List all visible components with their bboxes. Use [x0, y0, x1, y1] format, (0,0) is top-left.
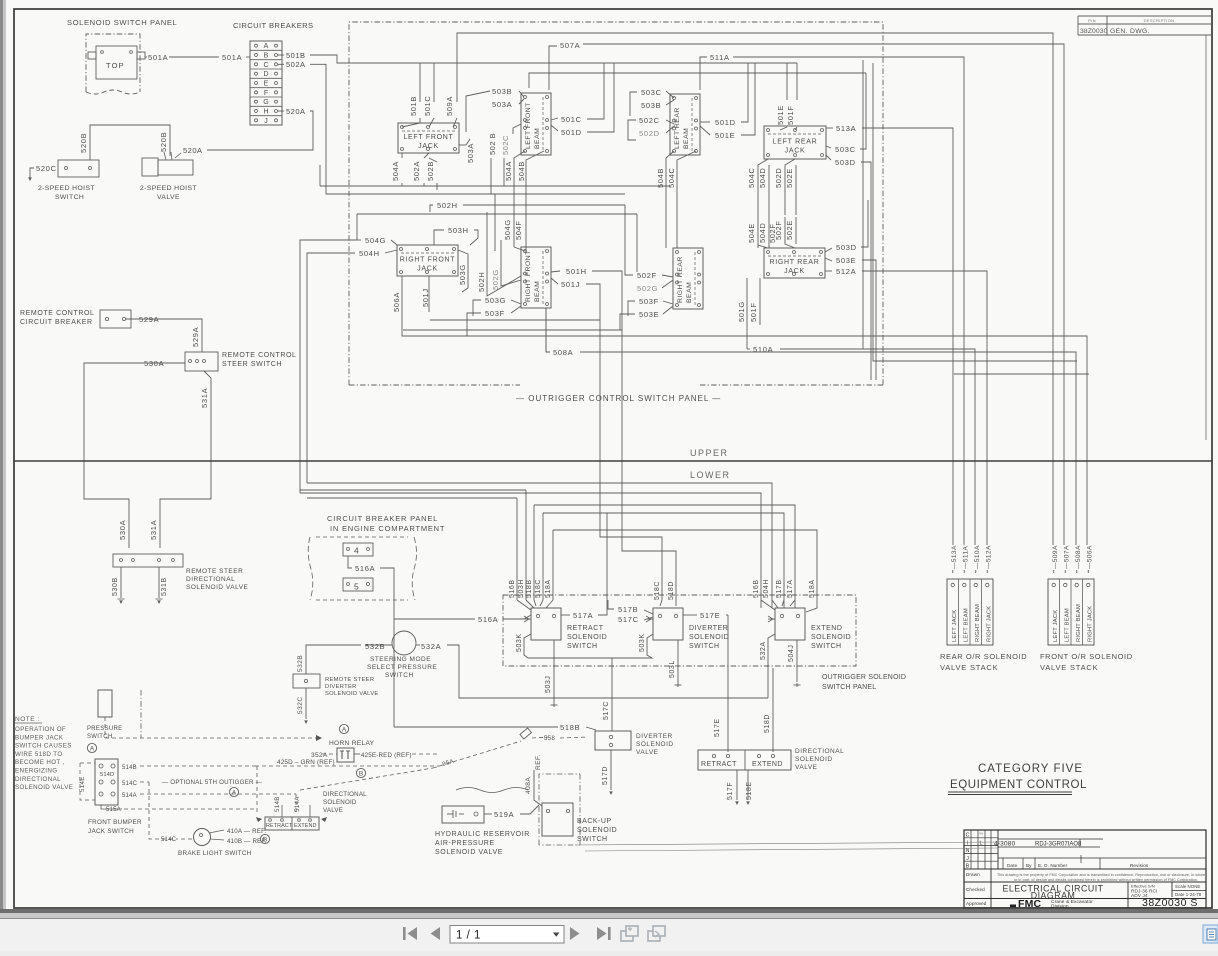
svg-text:SWITCH PANEL: SWITCH PANEL — [822, 684, 876, 691]
breaker G right terminal — [275, 100, 278, 103]
svg-text:518A: 518A — [545, 579, 552, 598]
svg-text:B: B — [264, 53, 269, 60]
breaker E left terminal — [255, 82, 258, 85]
svg-text:—508A: —508A — [1075, 545, 1082, 569]
svg-text:504A: 504A — [391, 161, 400, 181]
svg-text:502F: 502F — [768, 224, 777, 244]
svg-text:514A: 514A — [122, 793, 137, 799]
svg-text:520A: 520A — [286, 107, 306, 116]
breaker 5 — [343, 578, 373, 591]
svg-text:517C: 517C — [618, 615, 639, 624]
svg-text:517F: 517F — [727, 782, 734, 800]
svg-text:504B: 504B — [517, 161, 526, 181]
svg-text:DIRECTIONAL: DIRECTIONAL — [323, 791, 367, 798]
wire 520A from breaker H — [278, 110, 284, 112]
toolbar page number box — [450, 926, 564, 944]
wire 511A into stack — [963, 570, 965, 573]
wire 515A stub — [101, 805, 122, 809]
circled B (brake) — [260, 834, 269, 843]
wire 504J — [796, 640, 798, 682]
wire 531B — [158, 567, 160, 598]
svg-text:DIVERTER: DIVERTER — [636, 733, 673, 740]
svg-text:Approved: Approved — [966, 901, 987, 906]
hydraulic reservoir air-pressure solenoid valve — [442, 806, 484, 823]
wire 532A route — [447, 645, 768, 698]
svg-text:503G: 503G — [458, 264, 467, 285]
svg-text:N: N — [966, 848, 970, 854]
svg-text:BEAM: BEAM — [534, 281, 541, 302]
svg-text:I: I — [967, 840, 968, 846]
wire 518D drop — [772, 668, 774, 752]
svg-text:SWITCH: SWITCH — [689, 643, 720, 650]
svg-text:FRONT O/R SOLENOID: FRONT O/R SOLENOID — [1040, 652, 1133, 661]
svg-text:AIR-PRESSURE: AIR-PRESSURE — [435, 840, 495, 847]
svg-text:503C: 503C — [641, 88, 662, 97]
svg-text:SELECT PRESSURE: SELECT PRESSURE — [367, 664, 437, 671]
wire 501E up — [741, 63, 755, 135]
svg-text:532B: 532B — [297, 655, 304, 672]
svg-text:— OPTIONAL 5TH OUTIGGER —: — OPTIONAL 5TH OUTIGGER — — [162, 779, 263, 786]
svg-text:503J: 503J — [545, 676, 552, 693]
svg-text:BUMPER JACK: BUMPER JACK — [15, 734, 64, 741]
back-up solenoid switch — [539, 774, 580, 845]
svg-text:501B: 501B — [286, 51, 306, 60]
2-speed hoist switch — [58, 160, 99, 177]
svg-text:506A: 506A — [392, 292, 401, 312]
breaker A left terminal — [255, 44, 258, 47]
svg-text:SWITCH: SWITCH — [385, 672, 414, 679]
breaker J right terminal — [275, 119, 278, 122]
svg-text:—509A: —509A — [1052, 545, 1059, 569]
wire 503A link — [466, 91, 490, 132]
svg-text:503D: 503D — [835, 158, 856, 167]
svg-text:502 B: 502 B — [488, 133, 497, 155]
retract solenoid switch — [531, 608, 561, 640]
svg-text:502B: 502B — [426, 161, 435, 181]
svg-text:A: A — [232, 789, 237, 796]
svg-text:503H: 503H — [518, 579, 525, 598]
leader line revision 1 — [575, 842, 1000, 845]
svg-text:DIRECTIONAL: DIRECTIONAL — [795, 748, 844, 755]
svg-text:DIVERTER: DIVERTER — [689, 625, 728, 632]
svg-text:VALVE: VALVE — [795, 764, 818, 771]
wire 502H vertical — [487, 212, 521, 296]
svg-text:515A: 515A — [106, 807, 121, 813]
svg-text:L: L — [980, 841, 983, 847]
panel broken outline — [308, 537, 313, 600]
pressure switch — [98, 690, 112, 717]
svg-text:501H: 501H — [566, 267, 587, 276]
wire 502E vertical — [795, 165, 797, 215]
svg-text:SOLENOID: SOLENOID — [577, 827, 617, 834]
svg-text:BEAM: BEAM — [683, 128, 690, 149]
wire 517B bracket — [608, 600, 614, 609]
svg-text:501C: 501C — [423, 96, 432, 116]
svg-text:RIGHT JACK: RIGHT JACK — [986, 606, 992, 642]
svg-text:518C: 518C — [535, 579, 542, 598]
svg-text:516A: 516A — [478, 615, 498, 624]
wire 517D — [610, 750, 612, 790]
wire 501G down — [746, 278, 748, 349]
svg-text:530A: 530A — [118, 520, 127, 540]
viewer chrome below page — [0, 909, 1218, 913]
wire 504D vertical — [768, 165, 770, 248]
svg-text:A: A — [342, 726, 347, 733]
svg-text:LEFT BEAM: LEFT BEAM — [963, 608, 969, 642]
svg-text:503K: 503K — [639, 633, 646, 652]
svg-text:502A: 502A — [412, 161, 421, 181]
svg-text:38Z0030: 38Z0030 — [1080, 28, 1108, 35]
flag symbol — [520, 728, 532, 739]
wire stub — [319, 165, 321, 186]
svg-text:REF.: REF. — [535, 754, 542, 770]
wire 503B bus — [529, 73, 866, 88]
svg-text:503A: 503A — [492, 100, 512, 109]
svg-text:531B: 531B — [161, 577, 168, 596]
wire bus y374 — [954, 373, 1089, 375]
svg-text:503B: 503B — [641, 101, 661, 110]
wire stub 518B — [533, 505, 535, 600]
svg-text:532B: 532B — [365, 642, 385, 651]
wire 503K — [524, 634, 560, 658]
svg-text:512A: 512A — [836, 267, 856, 276]
wire 518E — [747, 770, 749, 800]
wire 509A into stack — [1053, 570, 1055, 573]
wire vertical x873 to front stack — [873, 63, 1077, 361]
wire bus y490 — [300, 489, 526, 491]
right rear jack switch — [764, 248, 825, 278]
svg-text:503L: 503L — [669, 660, 676, 678]
svg-text:ENERGIZING: ENERGIZING — [15, 768, 58, 775]
svg-text:Division: Division — [1051, 904, 1069, 910]
wire 531A — [160, 371, 211, 548]
svg-text:514B: 514B — [122, 765, 137, 771]
svg-text:501D: 501D — [561, 128, 582, 137]
svg-text:520C: 520C — [36, 164, 57, 173]
svg-text:RIGHT REAR: RIGHT REAR — [769, 259, 819, 266]
ground 504J — [794, 683, 801, 687]
svg-text:514C: 514C — [122, 781, 138, 787]
svg-text:DIRECTIONAL: DIRECTIONAL — [186, 576, 235, 583]
svg-text:504E: 504E — [747, 223, 756, 243]
svg-text:504D: 504D — [758, 223, 767, 243]
svg-text:RIGHT FRONT: RIGHT FRONT — [400, 257, 455, 264]
svg-text:JACK: JACK — [785, 148, 806, 155]
svg-text:38Z0030 S: 38Z0030 S — [1142, 897, 1198, 909]
svg-text:501D: 501D — [715, 118, 736, 127]
wire bus y214 — [357, 213, 637, 215]
svg-text:DESCRIPTION: DESCRIPTION — [1144, 18, 1175, 23]
left rear jack switch — [764, 126, 826, 159]
svg-text:UPPER: UPPER — [690, 448, 729, 458]
svg-text:532A: 532A — [760, 641, 767, 660]
svg-text:513A: 513A — [836, 124, 856, 133]
svg-text:502H: 502H — [477, 272, 486, 292]
wire 425D dashed — [255, 765, 440, 767]
svg-text:F: F — [264, 90, 268, 97]
svg-text:SOLENOID: SOLENOID — [811, 634, 851, 641]
wire 509A — [453, 118, 457, 127]
wire 532B to diverter valve — [306, 645, 361, 674]
svg-text:TOP: TOP — [106, 61, 125, 70]
svg-text:SOLENOID: SOLENOID — [323, 799, 357, 806]
title block — [964, 830, 1206, 908]
wire stub 518C — [542, 513, 544, 600]
wire 501D up — [741, 63, 748, 122]
svg-text:529A: 529A — [139, 315, 159, 324]
svg-text:530A: 530A — [144, 359, 164, 368]
svg-text:Revision: Revision — [1130, 863, 1149, 868]
svg-text:Date: Date — [1007, 863, 1017, 868]
svg-text:G: G — [263, 99, 268, 106]
svg-text:518B: 518B — [560, 723, 580, 732]
svg-text:501F: 501F — [786, 106, 795, 126]
revision table top right — [1078, 15, 1212, 17]
svg-text:RIGHT BEAM: RIGHT BEAM — [975, 604, 981, 642]
svg-text:504F: 504F — [514, 221, 523, 241]
svg-text:4: 4 — [354, 546, 359, 556]
svg-text:518D: 518D — [764, 714, 771, 733]
svg-text:IN ENGINE COMPARTMENT: IN ENGINE COMPARTMENT — [330, 524, 445, 533]
svg-text:SOLENOID VALVE: SOLENOID VALVE — [15, 784, 73, 791]
wire 515A dashed — [124, 808, 257, 810]
svg-text:501E: 501E — [776, 105, 785, 125]
svg-text:502C: 502C — [639, 116, 660, 125]
svg-text:VALVE STACK: VALVE STACK — [1040, 663, 1098, 672]
wire 508A into stack — [1076, 570, 1078, 573]
breaker G left terminal — [255, 100, 258, 103]
svg-text:501A: 501A — [222, 53, 242, 62]
wire 504H long — [307, 253, 355, 483]
toolbar next page button — [570, 927, 580, 940]
svg-text:5: 5 — [354, 582, 359, 592]
circled A (horn relay) — [339, 724, 348, 733]
breaker F left terminal — [255, 91, 258, 94]
svg-text:LEFT JACK: LEFT JACK — [952, 610, 958, 642]
svg-text:514D: 514D — [100, 772, 114, 778]
svg-text:502D: 502D — [639, 129, 660, 138]
wire 506A into stack — [1087, 570, 1089, 573]
wire 513A into stack — [952, 570, 954, 573]
left front beam switch — [521, 93, 551, 155]
wire 517C — [611, 658, 613, 731]
svg-text:EQUIPMENT CONTROL: EQUIPMENT CONTROL — [950, 779, 1087, 791]
svg-text:C: C — [263, 62, 268, 69]
svg-text:529A: 529A — [191, 327, 200, 347]
wire 503F bracket — [467, 313, 481, 336]
svg-text:SWITCH: SWITCH — [567, 643, 598, 650]
svg-text:Drawn: Drawn — [966, 872, 980, 877]
svg-text:517B: 517B — [776, 579, 783, 598]
svg-text:—510A: —510A — [974, 545, 981, 569]
wire 501C up — [587, 63, 604, 119]
wire 503E bracket — [620, 314, 635, 330]
svg-text:LEFT REAR: LEFT REAR — [773, 139, 818, 146]
wire 520C stub — [30, 168, 34, 178]
svg-text:REMOTE CONTROL: REMOTE CONTROL — [222, 352, 297, 359]
svg-text:SOLENOID VALVE: SOLENOID VALVE — [435, 849, 503, 856]
svg-text:516B: 516B — [753, 579, 760, 598]
wire stub 518A — [552, 530, 554, 600]
wire bus y194 — [326, 193, 625, 195]
svg-text:— OUTRIGGER CONTROL SWITCH: — OUTRIGGER CONTROL SWITCH PANEL — — [516, 394, 721, 403]
svg-text:516B: 516B — [509, 579, 516, 598]
wire 517A — [561, 614, 570, 616]
svg-text:VALVE: VALVE — [636, 749, 659, 756]
wire bus y513 — [543, 513, 784, 608]
svg-text:520B: 520B — [159, 132, 168, 152]
svg-text:2-SPEED HOIST: 2-SPEED HOIST — [140, 185, 197, 192]
svg-text:LOWER: LOWER — [690, 470, 731, 480]
svg-text:531A: 531A — [200, 388, 209, 408]
svg-text:RETRACT: RETRACT — [567, 625, 604, 632]
svg-text:SWITCH: SWITCH — [811, 643, 842, 650]
svg-text:503E: 503E — [836, 256, 856, 265]
svg-text:501E: 501E — [715, 131, 735, 140]
svg-text:501F: 501F — [749, 303, 758, 323]
svg-text:Scale NONE: Scale NONE — [1175, 884, 1200, 889]
svg-text:Checked: Checked — [966, 887, 985, 892]
svg-text:CIRCUIT BREAKERS: CIRCUIT BREAKERS — [233, 21, 314, 30]
wire 530A — [84, 363, 185, 548]
wire 514C dashed — [140, 781, 149, 783]
svg-text:—507A: —507A — [1063, 545, 1070, 569]
wire 506A — [402, 276, 1087, 545]
svg-text:510A: 510A — [753, 345, 773, 354]
wire 514A drop — [309, 805, 311, 817]
svg-text:SOLENOID VALVE: SOLENOID VALVE — [186, 584, 249, 591]
svg-text:EXTEND: EXTEND — [294, 823, 316, 829]
svg-text:502D: 502D — [774, 168, 783, 188]
svg-text:FMC: FMC — [1018, 898, 1042, 910]
circled A (optional outrigger) — [229, 787, 238, 796]
breaker F right terminal — [275, 91, 278, 94]
svg-text:530B: 530B — [112, 577, 119, 596]
wire 503C right — [860, 73, 866, 149]
svg-text:517C: 517C — [603, 701, 610, 720]
breaker C left terminal — [255, 63, 258, 66]
breaker A right terminal — [275, 44, 278, 47]
svg-text:504G: 504G — [503, 219, 512, 240]
wire 503D down — [861, 162, 871, 380]
solenoid switch panel enclosure (dash-dot) — [86, 34, 140, 92]
wire 502A — [278, 63, 284, 65]
svg-text:HYDRAULIC RESERVOIR: HYDRAULIC RESERVOIR — [435, 831, 530, 838]
svg-text:2-SPEED HOIST: 2-SPEED HOIST — [38, 185, 95, 192]
wire stub 504G — [356, 214, 358, 240]
svg-text:OUTRIGGER SOLENOID: OUTRIGGER SOLENOID — [822, 674, 906, 681]
wire 510A into stack — [975, 570, 977, 573]
wire 507A into stack — [1064, 570, 1066, 573]
toolbar first page button — [403, 927, 417, 940]
wire 503A bus left front — [466, 139, 470, 145]
toolbar right icon (highlighted) — [1203, 925, 1218, 943]
extend solenoid switch — [775, 608, 805, 640]
outrigger solenoid switch panel boundary — [503, 595, 856, 666]
svg-text:BRAKE LIGHT SWITCH: BRAKE LIGHT SWITCH — [178, 850, 252, 857]
wire 507A — [549, 46, 557, 90]
wire bus y320 — [430, 319, 600, 321]
svg-text:504B: 504B — [656, 168, 665, 188]
svg-text:GEN. DWG.: GEN. DWG. — [1110, 28, 1150, 35]
ground 503L — [675, 683, 682, 687]
svg-text:503F: 503F — [485, 309, 505, 318]
svg-text:A: A — [264, 43, 269, 50]
breaker B left terminal — [255, 54, 258, 57]
wire 504B-F vertical — [666, 151, 674, 248]
svg-text:514E: 514E — [79, 776, 86, 792]
svg-text:503C: 503C — [835, 145, 856, 154]
svg-text:SOLENOID VALVE: SOLENOID VALVE — [325, 691, 379, 697]
svg-text:517E: 517E — [714, 718, 721, 737]
svg-text:OPERATION OF: OPERATION OF — [15, 726, 66, 733]
wire 501F down — [759, 278, 761, 325]
wire 503F bracket — [628, 301, 635, 316]
wire 502F into right rear jack — [785, 217, 795, 248]
breaker D right terminal — [275, 72, 278, 75]
svg-text:504D: 504D — [758, 168, 767, 188]
rear O/R solenoid valve stack — [947, 579, 993, 645]
svg-text:501J: 501J — [561, 280, 580, 289]
wire 518B — [394, 726, 558, 728]
breaker H left terminal — [255, 110, 258, 113]
svg-text:EXTEND: EXTEND — [752, 761, 783, 768]
wire 558 dashed — [532, 737, 548, 738]
svg-text:DIRECTIONAL: DIRECTIONAL — [15, 776, 61, 783]
svg-text:C: C — [966, 833, 970, 839]
svg-text:516A: 516A — [355, 564, 375, 573]
svg-text:508A: 508A — [553, 348, 573, 357]
svg-text:E. O. Number: E. O. Number — [1038, 863, 1068, 868]
wire 516A into retract switch — [503, 615, 531, 619]
svg-text:SOLENOID: SOLENOID — [795, 756, 833, 763]
svg-text:REMOTE STEER: REMOTE STEER — [186, 568, 243, 575]
svg-text:501C: 501C — [561, 115, 582, 124]
wire 503L — [677, 640, 679, 683]
front O/R solenoid valve stack — [1048, 579, 1094, 645]
wire 501D up — [587, 63, 614, 132]
svg-text:RIGHT BEAM: RIGHT BEAM — [1076, 604, 1082, 642]
breaker 4 — [343, 543, 373, 556]
svg-text:JACK SWITCH: JACK SWITCH — [88, 828, 134, 835]
wire 516A — [348, 556, 352, 568]
svg-text:HORN RELAY: HORN RELAY — [329, 740, 375, 747]
toolbar last page button — [597, 927, 611, 940]
svg-text:504J: 504J — [788, 645, 795, 662]
wire 504B vertical — [526, 151, 544, 247]
svg-text:514B: 514B — [274, 796, 281, 812]
wire 502E into right rear jack — [795, 217, 797, 244]
wire 508A — [546, 308, 550, 352]
svg-text:SWITCH: SWITCH — [55, 194, 84, 201]
wire 504C vertical2 — [758, 159, 768, 248]
svg-text:RETRACT: RETRACT — [266, 823, 293, 829]
svg-text:J: J — [966, 856, 969, 862]
svg-text:502F: 502F — [637, 271, 657, 280]
svg-text:509A: 509A — [445, 96, 454, 116]
svg-text:BECOME HOT ,: BECOME HOT , — [15, 759, 65, 766]
svg-text:LEFT JACK: LEFT JACK — [1053, 610, 1059, 642]
svg-text:504C: 504C — [747, 168, 756, 188]
svg-text:410A — REF.: 410A — REF. — [227, 828, 266, 835]
svg-text:STEER SWITCH: STEER SWITCH — [222, 361, 282, 368]
svg-text:517A: 517A — [573, 611, 593, 620]
svg-text:518A: 518A — [809, 579, 816, 598]
wire 517F — [736, 770, 738, 800]
svg-text:SWITCH: SWITCH — [577, 836, 608, 843]
svg-text:CATEGORY FIVE: CATEGORY FIVE — [978, 763, 1083, 775]
svg-text:JACK: JACK — [418, 143, 439, 150]
